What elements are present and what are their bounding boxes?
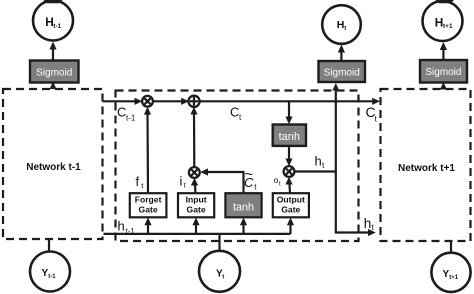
wire bus to tanh lower	[240, 218, 247, 234]
svg-text:Gate: Gate	[187, 205, 206, 215]
wire C to tanh upper	[285, 101, 292, 124]
wire sigmoid right to H t+1	[440, 42, 447, 60]
svg-text:f: f	[136, 174, 140, 189]
node H t	[322, 5, 361, 44]
wire multiply to add	[153, 98, 189, 105]
svg-text:C: C	[230, 105, 239, 120]
wire Y t to h line	[218, 234, 220, 251]
wire input multiply to add	[190, 107, 197, 168]
svg-text:Input: Input	[186, 195, 207, 205]
node Y t	[199, 251, 240, 292]
wire sigmoid middle to H t	[338, 45, 345, 62]
multiply node forget	[142, 96, 153, 107]
multiply node input	[189, 167, 200, 178]
gate box forget	[130, 193, 167, 217]
svg-text:Network t+1: Network t+1	[398, 163, 455, 174]
wire network t-1 bottom to Y t-1	[48, 239, 50, 252]
label C t (output right)	[366, 104, 378, 124]
wire h t to sigmoid middle and out	[294, 83, 339, 173]
node H t-1	[33, 0, 73, 41]
node Y t+1	[431, 253, 470, 292]
network box t+1	[381, 89, 471, 241]
svg-text:h: h	[364, 216, 372, 231]
wire network t-1 top to sigmoid	[50, 82, 57, 90]
network box t-1	[3, 89, 103, 239]
gate box input	[178, 193, 214, 217]
svg-text:t: t	[344, 26, 346, 32]
label h t	[315, 154, 326, 170]
svg-text:Sigmoid: Sigmoid	[425, 67, 461, 78]
wire output gate to output multiply	[285, 177, 292, 193]
svg-text:~: ~	[245, 167, 253, 183]
tanh box upper	[273, 125, 306, 146]
node Y t-1	[30, 252, 70, 292]
wire forget gate to multiply	[144, 107, 151, 193]
svg-text:t-1: t-1	[126, 227, 136, 236]
label f t	[136, 174, 145, 190]
svg-text:C: C	[117, 105, 126, 120]
wire bus to output gate	[287, 218, 294, 234]
node H t+1	[423, 0, 463, 41]
label o t	[274, 175, 281, 187]
wire C t to network t+1	[200, 98, 381, 105]
wire network t+1 top to sigmoid right	[440, 82, 447, 90]
svg-text:Sigmoid: Sigmoid	[36, 67, 72, 78]
label h t-1	[118, 219, 136, 237]
svg-text:i: i	[180, 174, 183, 189]
svg-text:tanh: tanh	[279, 131, 300, 143]
multiply node output	[284, 166, 295, 177]
wire bus to input gate	[192, 218, 199, 234]
wire network t+1 bottom to Y t+1	[450, 241, 452, 253]
sigmoid box middle	[319, 61, 366, 82]
tanh box lower	[225, 193, 261, 217]
wire C t-1 into cell	[103, 98, 143, 105]
add node	[188, 96, 199, 107]
svg-text:t-1: t-1	[48, 274, 56, 280]
LSTM cell box t	[116, 91, 359, 242]
svg-text:Sigmoid: Sigmoid	[324, 67, 360, 78]
svg-text:h: h	[118, 219, 125, 234]
svg-text:Gate: Gate	[281, 205, 300, 215]
svg-text:Forget: Forget	[135, 195, 162, 205]
wire tanh upper to output multiply	[285, 146, 292, 166]
label C t (cell)	[230, 105, 242, 123]
svg-text:t-1: t-1	[53, 23, 61, 30]
svg-text:Network t-1: Network t-1	[26, 162, 81, 173]
label h t (output right)	[364, 216, 375, 232]
wire bus to forget gate	[144, 218, 151, 234]
svg-text:Gate: Gate	[139, 205, 158, 215]
label C t-1	[117, 105, 136, 123]
label C~ t	[244, 167, 257, 191]
svg-text:t: t	[222, 274, 224, 280]
svg-text:t+1: t+1	[443, 23, 453, 30]
svg-text:t+1: t+1	[449, 275, 459, 281]
sigmoid box left	[30, 61, 79, 83]
svg-text:h: h	[315, 154, 322, 169]
wire sigmoid left to H t-1	[49, 42, 56, 61]
wire h t-1 bus	[104, 233, 291, 235]
wire tanh lower to input multiply	[200, 168, 244, 193]
sigmoid box right	[420, 60, 467, 83]
gate box output	[273, 193, 309, 217]
wire h t down and out right	[335, 171, 376, 237]
label i t	[180, 174, 187, 190]
svg-text:Output: Output	[277, 195, 305, 205]
svg-text:tanh: tanh	[233, 202, 254, 214]
svg-text:t-1: t-1	[126, 114, 136, 123]
wire input gate to input multiply	[191, 178, 198, 193]
